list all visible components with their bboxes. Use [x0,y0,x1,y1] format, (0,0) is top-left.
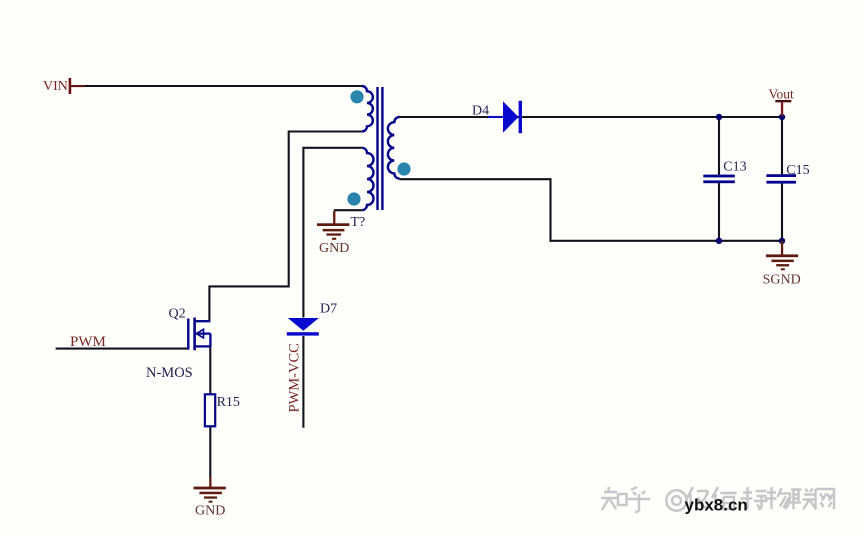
svg-text:SGND: SGND [763,272,801,287]
svg-text:VIN: VIN [43,79,68,94]
svg-text:D7: D7 [320,302,337,317]
svg-text:ybx8.cn: ybx8.cn [685,495,748,514]
svg-text:GND: GND [195,504,225,519]
svg-text:N-MOS: N-MOS [146,365,193,381]
svg-text:C15: C15 [786,163,809,178]
svg-text:PWM-VCC: PWM-VCC [287,343,303,412]
svg-text:R15: R15 [217,395,240,410]
svg-text:D4: D4 [472,104,489,119]
svg-text:Q2: Q2 [169,306,186,321]
svg-text:PWM: PWM [70,334,106,350]
svg-text:T?: T? [351,215,366,230]
svg-text:Vout: Vout [769,87,795,102]
svg-text:GND: GND [319,241,349,256]
svg-text:C13: C13 [723,159,746,174]
